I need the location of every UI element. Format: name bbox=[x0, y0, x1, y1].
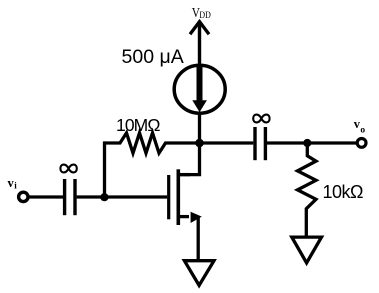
svg-text:10kΩ: 10kΩ bbox=[323, 182, 364, 202]
capacitor C2 (output, infinity) bbox=[253, 127, 256, 160]
label infinity (C2) bbox=[253, 115, 269, 123]
svg-text:500 μA: 500 μA bbox=[122, 46, 184, 68]
transistor Q1 source stub with arrow bbox=[178, 215, 189, 218]
current source I1 (circle) bbox=[174, 65, 225, 113]
current source arrow (inside) bbox=[197, 67, 203, 102]
svg-text:o: o bbox=[360, 125, 365, 135]
terminal: input vi (open circle) bbox=[19, 192, 28, 201]
resistor R1 10MOhm bbox=[105, 133, 198, 153]
wire: current source to drain (through node) bbox=[179, 113, 200, 175]
svg-text:i: i bbox=[14, 180, 17, 190]
capacitor C1 (input, infinity) bbox=[63, 179, 66, 215]
label V_DD bbox=[192, 6, 211, 21]
node: drain/output junction dot bbox=[195, 139, 204, 148]
transistor Q1 drain stub bbox=[178, 173, 190, 176]
node: output junction dot bbox=[303, 139, 311, 147]
wire: capacitor C2 to output terminal bbox=[267, 141, 357, 144]
ground (output) bbox=[292, 237, 322, 263]
ground (source) bbox=[184, 261, 214, 286]
wire: node to capacitor C2 bbox=[200, 141, 254, 144]
wire: source down to ground bbox=[197, 217, 200, 260]
svg-text:DD: DD bbox=[199, 11, 211, 21]
wire: capacitor C1 to gate bbox=[77, 195, 168, 198]
transistor Q1 gate bar bbox=[167, 175, 170, 219]
resistor R2 10kOhm bbox=[298, 145, 317, 236]
svg-text:10MΩ: 10MΩ bbox=[116, 115, 160, 135]
label v_o bbox=[354, 117, 366, 135]
VDD supply arrow bbox=[198, 23, 201, 64]
label infinity (C1) bbox=[60, 165, 76, 173]
transistor Q1 channel bar bbox=[177, 169, 181, 225]
wire: vi terminal to capacitor C1 bbox=[28, 195, 63, 198]
label v_i bbox=[8, 176, 18, 190]
wire: resistor left end down to gate node bbox=[103, 141, 106, 197]
terminal: output vo (open circle) bbox=[357, 139, 366, 148]
node: gate junction dot bbox=[100, 193, 108, 201]
